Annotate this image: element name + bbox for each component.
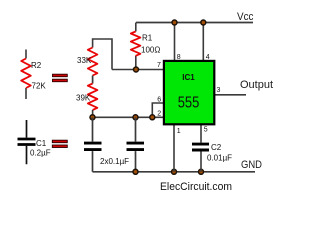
equivalence equals sign (R2 = 33K+39K): [53, 74, 68, 82]
svg-text:3: 3: [217, 87, 221, 94]
wire pin8 to Vcc rail: [174, 23, 176, 61]
svg-text:2: 2: [157, 111, 161, 118]
resistor R2 (72K equivalent symbol): [21, 50, 31, 100]
junction dot 39K/cap: [90, 115, 95, 120]
svg-text:2x0.1µF: 2x0.1µF: [100, 157, 129, 166]
junction dot pin6 jog: [150, 115, 155, 120]
wire link 33K to 39K: [92, 76, 94, 84]
junction dot C2/GND: [199, 169, 204, 174]
svg-text:5: 5: [204, 127, 208, 134]
svg-text:Vcc: Vcc: [237, 11, 254, 23]
svg-text:555: 555: [178, 95, 200, 112]
capacitor C1 (0.2uF equivalent symbol): [18, 120, 36, 164]
wire pin6 jog: [152, 103, 163, 117]
svg-text:33K: 33K: [77, 56, 92, 65]
svg-text:R1: R1: [142, 34, 153, 43]
svg-text:C1: C1: [36, 139, 47, 148]
junction dot cap2 top: [133, 115, 138, 120]
svg-text:7: 7: [157, 62, 161, 69]
svg-text:6: 6: [157, 96, 161, 103]
capacitor 0.1uF B: [127, 117, 145, 172]
svg-text:0.2µF: 0.2µF: [30, 149, 51, 158]
wire pin7 horizontal: [112, 69, 164, 71]
svg-text:C2: C2: [211, 143, 222, 152]
wire Vcc rail: [136, 22, 253, 24]
junction dot pin1/GND: [172, 169, 177, 174]
svg-text:IC1: IC1: [182, 73, 195, 82]
resistor R1: [131, 23, 141, 70]
capacitor C2: [192, 125, 209, 172]
resistor 33K: [88, 39, 112, 76]
svg-text:ElecCircuit.com: ElecCircuit.com: [160, 181, 232, 193]
wire pin3 output: [215, 94, 246, 96]
junction dot Vcc/pin4: [201, 20, 206, 25]
equivalence equals sign (C1 = 2x0.1uF): [52, 140, 67, 147]
svg-text:8: 8: [177, 54, 181, 61]
resistor 39K: [88, 84, 98, 118]
wire pin2 horizontal net: [93, 116, 164, 118]
junction dot R1/pin7: [134, 67, 139, 72]
svg-text:39K: 39K: [76, 94, 91, 103]
svg-text:72K: 72K: [32, 82, 47, 91]
svg-text:100Ω: 100Ω: [141, 46, 160, 55]
svg-text:Output: Output: [240, 79, 273, 91]
svg-text:4: 4: [206, 54, 210, 61]
junction dot cap2 bottom: [133, 169, 138, 174]
capacitor 0.1uF A: [84, 117, 102, 172]
svg-text:0.01µF: 0.01µF: [207, 154, 232, 163]
junction dot Vcc/pin8: [172, 20, 177, 25]
svg-text:GND: GND: [241, 159, 262, 171]
svg-text:1: 1: [177, 128, 181, 135]
op-amp/timer IC1 555 body: [164, 61, 214, 124]
wire pin1 to GND: [173, 125, 175, 172]
svg-text:R2: R2: [31, 61, 42, 70]
wire GND rail: [93, 171, 256, 173]
wire pin4 to Vcc rail: [202, 23, 204, 61]
